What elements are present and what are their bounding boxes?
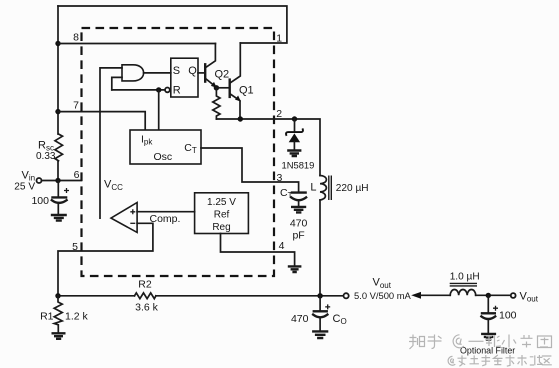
pin 3 label	[277, 172, 283, 184]
svg-text:Q: Q	[188, 65, 197, 77]
svg-text:1.2 k: 1.2 k	[65, 310, 89, 322]
svg-text:220 µH: 220 µH	[336, 183, 369, 194]
svg-text:5: 5	[72, 241, 78, 253]
wire R input with inversion bubble	[112, 88, 170, 93]
svg-text:Reg: Reg	[212, 222, 230, 233]
svg-text:7: 7	[73, 100, 79, 112]
node output junction	[317, 293, 322, 298]
svg-text:100: 100	[499, 310, 517, 322]
node pin7 junction	[55, 109, 60, 114]
wire latch Q to Q2 base	[198, 72, 204, 74]
wire pin 7 to Ipk	[58, 112, 145, 130]
wire feedback line	[58, 295, 343, 297]
ground CT	[292, 207, 305, 213]
svg-text:8: 8	[73, 32, 79, 44]
oscillator block	[130, 130, 201, 164]
label Vout 5.0V/500mA	[354, 277, 412, 301]
svg-text:Q1: Q1	[239, 85, 254, 97]
svg-text:3: 3	[277, 172, 283, 184]
capacitor CT 470pF	[291, 193, 306, 207]
svg-text:1N5819: 1N5819	[282, 159, 315, 170]
svg-text:R: R	[173, 84, 181, 96]
svg-text:1.0 µH: 1.0 µH	[450, 271, 480, 282]
label R1 1.2k	[40, 310, 88, 322]
wire comparator minus input to pin 5	[58, 223, 153, 295]
terminal Vout filter	[511, 293, 516, 298]
svg-text:25 V: 25 V	[14, 182, 35, 193]
label 470 pF	[290, 218, 308, 242]
node pin8 junction	[55, 41, 60, 46]
label 100 input cap	[31, 195, 49, 207]
svg-text:1.25 V: 1.25 V	[207, 197, 236, 208]
node Q2 emitter junction	[214, 85, 219, 90]
svg-text:Ref: Ref	[214, 210, 230, 221]
ground pin 4	[289, 266, 300, 272]
ground CO	[313, 331, 327, 338]
svg-text:S: S	[173, 65, 180, 77]
node feedback left junction	[55, 293, 60, 298]
wire comparator plus input to ref	[137, 211, 195, 213]
svg-text:470: 470	[290, 218, 308, 230]
resistor R2	[135, 293, 156, 299]
capacitor 100 filter	[481, 295, 498, 333]
svg-text:L: L	[310, 181, 316, 193]
svg-text:Osc: Osc	[154, 151, 173, 163]
capacitor CO 470	[313, 296, 330, 331]
IC U1 dashed outline MC34063	[82, 28, 275, 276]
svg-text:6: 6	[74, 169, 80, 181]
wire pin 2	[216, 119, 320, 176]
pin 5 label	[72, 241, 78, 253]
label VCC	[104, 179, 123, 192]
wire ref to pin 4 ground	[221, 234, 295, 267]
svg-text:Optional Filter: Optional Filter	[460, 345, 515, 355]
node R line junction	[156, 87, 161, 92]
node filter cap junction	[486, 293, 491, 298]
svg-text:Comp.: Comp.	[150, 213, 181, 225]
pin 8 label	[73, 32, 79, 44]
svg-text:pF: pF	[292, 229, 304, 241]
arrow filter to output node	[411, 292, 450, 299]
svg-text:3.6 k: 3.6 k	[135, 302, 159, 314]
wire pin 8	[58, 43, 215, 45]
label Vout filter	[520, 290, 539, 303]
resistor emitter Q2	[213, 88, 220, 119]
comparator	[111, 203, 137, 233]
diode D1 1N5819	[286, 119, 303, 150]
watermark juejin	[448, 355, 552, 366]
node Q1 emitter to pin2 wire	[238, 116, 243, 121]
label R2 3.6k	[135, 279, 159, 314]
label Q1	[239, 85, 254, 97]
inductor 1.0uH filter	[450, 283, 477, 295]
wire Q2 emitter to Q1 base	[216, 87, 229, 89]
terminal Vin	[37, 178, 82, 183]
and gate U2	[122, 65, 171, 81]
resistor R1	[54, 296, 62, 333]
wire osc to R line	[158, 90, 160, 130]
ground filter cap	[482, 334, 495, 340]
svg-text:470: 470	[291, 313, 309, 325]
ground input cap	[52, 215, 66, 221]
pin 2 label	[276, 108, 282, 120]
resistor Rsc	[55, 134, 63, 161]
svg-text:Q2: Q2	[215, 69, 230, 81]
transistor Q2	[205, 44, 217, 88]
pin 1 label	[276, 32, 282, 44]
SR latch U3	[171, 58, 198, 97]
inductor L 220uH	[320, 176, 331, 296]
svg-text:1: 1	[276, 32, 282, 44]
svg-text:5.0 V/500 mA: 5.0 V/500 mA	[354, 290, 412, 301]
capacitor 100 input	[52, 181, 69, 215]
svg-text:R1: R1	[40, 310, 54, 322]
svg-text:R2: R2	[138, 279, 152, 291]
label Rsc value	[36, 140, 56, 162]
svg-text:100: 100	[31, 195, 49, 207]
svg-text:0.33: 0.33	[36, 151, 56, 162]
label Vin 25V	[14, 170, 35, 193]
svg-text:4: 4	[279, 240, 285, 252]
label 470 CO	[291, 313, 347, 326]
transistor Q1	[230, 43, 241, 119]
terminal Vout	[344, 293, 349, 298]
label Q2	[215, 69, 230, 81]
label 100 filter	[499, 310, 517, 322]
svg-text:2: 2	[276, 108, 282, 120]
wire CT out to pin 3	[201, 148, 299, 192]
pin 4 label	[279, 240, 285, 252]
wire left Vin rail	[57, 6, 59, 181]
label CT	[280, 187, 293, 200]
node Vin junction	[55, 178, 60, 183]
label Optional Filter	[460, 345, 515, 355]
node diode junction on pin2 wire	[292, 116, 297, 121]
label L 220uH	[310, 181, 368, 194]
label 1.0 uH	[450, 271, 480, 282]
wire comparator output to and gate input A	[100, 68, 122, 218]
wire filter to terminal	[476, 294, 511, 296]
watermark zhihu	[409, 335, 552, 350]
ground R1	[53, 333, 65, 339]
pin 7 label	[73, 100, 79, 112]
wire top rail Vin to pin 1	[58, 6, 287, 43]
label Comp.	[150, 213, 181, 225]
label 1N5819	[282, 159, 315, 170]
pin 6 label	[74, 169, 80, 181]
reference regulator block	[195, 193, 249, 234]
ground diode	[288, 151, 300, 157]
